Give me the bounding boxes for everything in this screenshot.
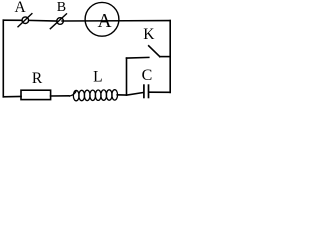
svg-text:B: B [57,0,66,15]
svg-text:R: R [32,70,43,87]
svg-text:K: K [143,26,155,43]
svg-text:L: L [93,69,102,86]
svg-text:C: C [142,67,153,84]
svg-text:A: A [98,11,112,32]
svg-text:A: A [14,0,26,16]
